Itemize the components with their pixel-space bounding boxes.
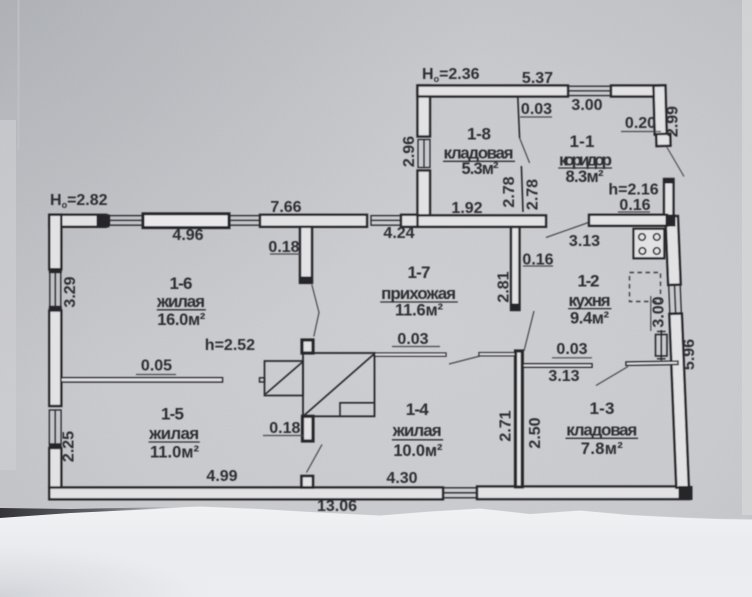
svg-text:1-3: 1-3 [590, 399, 615, 418]
furnace diagonal [305, 355, 374, 416]
svg-text:1-6: 1-6 [170, 274, 193, 293]
window left W6 [49, 410, 61, 444]
svg-text:5.3м²: 5.3м² [462, 160, 500, 178]
svg-text:4.30: 4.30 [386, 470, 417, 487]
entry door diagonal [667, 147, 685, 177]
svg-text:кухня: кухня [569, 291, 611, 310]
svg-text:1-7: 1-7 [408, 263, 431, 282]
svg-text:0.03: 0.03 [521, 101, 552, 118]
svg-text:0.20: 0.20 [625, 115, 656, 132]
1-3 top wall right run [626, 361, 678, 365]
svg-text:2.50: 2.50 [527, 417, 544, 448]
svg-text:жилая: жилая [148, 424, 199, 443]
svg-text:0.05: 0.05 [141, 358, 172, 375]
svg-text:2.99: 2.99 [665, 106, 682, 137]
svg-text:1-8: 1-8 [467, 125, 491, 144]
svg-text:3.29: 3.29 [62, 276, 79, 307]
left wall lower [49, 448, 61, 488]
svg-text:2.25: 2.25 [61, 431, 78, 462]
black wedge bottom-left (paper edge shadow) [0, 507, 185, 518]
partition 1-6/1-5 [61, 378, 223, 382]
svg-text:0.18: 0.18 [268, 239, 299, 256]
annex left wall lower [418, 171, 431, 216]
left paper-edge lighter strip [0, 120, 16, 470]
svg-text:0.16: 0.16 [619, 197, 650, 214]
kitchen door leaf [524, 311, 534, 351]
1-3 door leaf [596, 367, 628, 386]
furnace step [340, 403, 375, 416]
corner block kitchen top-right [666, 215, 675, 226]
svg-text:3.13: 3.13 [548, 368, 579, 385]
svg-text:11.6м²: 11.6м² [395, 301, 444, 319]
svg-text:0.03: 0.03 [556, 341, 587, 358]
door leaf partition [449, 356, 480, 364]
svg-text:11.0м²: 11.0м² [150, 444, 200, 462]
svg-text:прихожая: прихожая [381, 284, 456, 303]
svg-text:7.66: 7.66 [270, 199, 301, 216]
annex top wall right run [611, 86, 665, 97]
svg-text:2.78: 2.78 [525, 179, 542, 210]
kitchen top wall [589, 215, 667, 226]
door leaf 1-5/1-4 [307, 445, 323, 473]
furnace main square [303, 353, 375, 416]
svg-text:4.24: 4.24 [383, 225, 414, 242]
corner block bottom-right [679, 487, 692, 500]
svg-text:0.18: 0.18 [269, 420, 300, 437]
wall cap [97, 215, 109, 227]
svg-text:3.00: 3.00 [571, 97, 602, 114]
subtle paper grain [0, 0, 1, 1]
svg-text:9.4м²: 9.4м² [570, 310, 610, 328]
svg-text:7.8м²: 7.8м² [581, 440, 624, 458]
svg-text:16.0м²: 16.0м² [157, 311, 206, 329]
corridor-kitchen door leader [546, 223, 589, 238]
svg-text:1-5: 1-5 [161, 405, 184, 424]
svg-text:коридор: коридор [559, 151, 612, 170]
svg-text:10.0м²: 10.0м² [393, 442, 443, 460]
svg-text:1-1: 1-1 [570, 132, 595, 151]
corridor right wall stub [664, 179, 674, 218]
vent symbol [660, 330, 662, 361]
right wall (slanted) [665, 216, 688, 488]
wall top-left segment [49, 215, 106, 227]
svg-text:2.71: 2.71 [498, 410, 515, 441]
svg-text:1-2: 1-2 [578, 272, 600, 291]
svg-text:5.37: 5.37 [522, 70, 553, 87]
svg-text:13.06: 13.06 [317, 498, 357, 515]
furnace left box [265, 361, 304, 396]
torn bottom edge & area below [0, 506, 752, 597]
svg-text:0.03: 0.03 [397, 331, 428, 348]
window annex top W9 [568, 86, 611, 95]
dimension underlines [136, 117, 661, 436]
left wall upper [49, 215, 61, 269]
svg-text:жилая: жилая [392, 421, 442, 440]
wall cap [49, 444, 61, 448]
furnace bottom stub [303, 416, 314, 441]
wall top right stub [401, 215, 418, 227]
window top W1 [110, 216, 144, 226]
svg-text:Ho=2.36: Ho=2.36 [422, 66, 480, 84]
1-3 top wall left run [523, 364, 592, 367]
svg-text:жилая: жилая [156, 292, 205, 311]
svg-text:2.81: 2.81 [496, 271, 513, 302]
svg-text:3.00: 3.00 [651, 296, 668, 327]
wall cap [49, 269, 61, 273]
svg-text:5.96: 5.96 [681, 339, 698, 370]
wall cap [49, 307, 61, 311]
wall 1-6 / 1-7 [300, 227, 312, 283]
annex right wall [653, 85, 670, 146]
window top W2 bold [143, 214, 229, 228]
stove [634, 229, 665, 258]
partition 1-8 / 1-1 [518, 97, 520, 138]
room labels [148, 125, 638, 462]
svg-text:2.96: 2.96 [401, 136, 418, 167]
window bottom W7 [443, 488, 477, 498]
svg-text:1.92: 1.92 [451, 200, 482, 217]
svg-text:1-4: 1-4 [406, 400, 430, 419]
svg-text:h=2.52: h=2.52 [205, 337, 255, 354]
svg-text:4.99: 4.99 [206, 468, 237, 485]
window top W3 [229, 216, 260, 226]
bottom wall left run [49, 488, 443, 500]
kitchen left wall [511, 227, 520, 310]
partition 1-7/1-4 right [479, 353, 515, 356]
annex left wall upper [418, 86, 431, 137]
1-8 bottom wall [418, 215, 547, 226]
bottom wall stub [302, 476, 314, 488]
partition 1-7/1-4 left [374, 353, 446, 356]
wall 1-4 / 1-3 [516, 351, 523, 487]
svg-text:кладовая: кладовая [566, 421, 637, 440]
furnace top stub [302, 340, 313, 353]
svg-text:3.13: 3.13 [569, 233, 600, 250]
svg-text:h=2.16: h=2.16 [608, 182, 658, 199]
svg-text:4.96: 4.96 [172, 227, 203, 244]
fridge dashed [630, 273, 661, 302]
window left W5 [50, 273, 61, 307]
bottom corners soft shade [0, 0, 1, 1]
svg-text:Ho=2.82: Ho=2.82 [50, 192, 108, 210]
window annex W8 [418, 140, 430, 168]
door 1-6 zigzag [312, 285, 319, 337]
svg-text:8.3м²: 8.3м² [566, 168, 605, 186]
right paper curl light strip [742, 0, 752, 515]
wall top middle segment [260, 215, 367, 227]
furnace left notch [260, 378, 265, 382]
window top W4 [371, 216, 401, 226]
corridor stub cap [664, 179, 674, 183]
furnace left box diagonal [266, 362, 303, 394]
svg-text:0.16: 0.16 [522, 252, 553, 269]
svg-text:2.78: 2.78 [501, 176, 518, 207]
bottom wall right run [477, 487, 689, 500]
left wall middle [49, 311, 61, 407]
annex top wall left run [418, 86, 569, 97]
